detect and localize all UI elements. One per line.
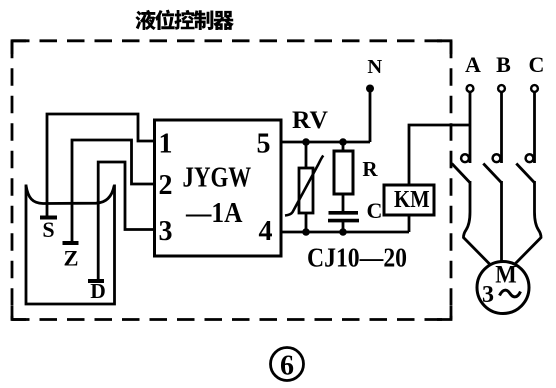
svg-text:2: 2 xyxy=(159,170,173,201)
svg-text:5: 5 xyxy=(257,129,271,160)
wire phase A upper xyxy=(469,92,472,163)
svg-text:4: 4 xyxy=(259,216,273,247)
svg-text:JYGW: JYGW xyxy=(183,162,252,194)
border corner BL xyxy=(12,306,26,320)
wire KM top to phase A xyxy=(409,125,470,185)
tank container xyxy=(26,185,115,305)
wire KM bottom stub xyxy=(408,215,411,232)
terminal B xyxy=(498,85,505,92)
svg-text:N: N xyxy=(367,56,382,78)
svg-text:6: 6 xyxy=(280,351,294,382)
IC U1 JYGW-1A box xyxy=(155,120,282,256)
junction dot C bottom xyxy=(339,228,347,236)
electrode Z tip bar xyxy=(63,241,79,245)
svg-text:M: M xyxy=(495,262,517,289)
terminal C xyxy=(531,85,538,92)
title char 器 xyxy=(213,11,234,30)
svg-text:RV: RV xyxy=(292,105,329,134)
title char 液 xyxy=(135,10,155,30)
capacitor C bottom plate xyxy=(328,219,359,223)
wire RV bottom stub xyxy=(305,213,308,232)
wire pin4 bus xyxy=(281,231,409,234)
svg-text:C: C xyxy=(367,198,383,223)
wire R top stub xyxy=(342,142,345,151)
svg-text:1: 1 xyxy=(159,129,173,160)
electrode S wire xyxy=(47,114,155,216)
svg-text:R: R xyxy=(362,157,378,181)
svg-text:KM: KM xyxy=(394,186,430,213)
svg-text:S: S xyxy=(42,217,54,242)
junction dot RV top xyxy=(302,138,310,146)
svg-text:—1A: —1A xyxy=(185,197,242,229)
junction dot R top xyxy=(339,138,347,146)
contact blade A xyxy=(452,164,470,183)
title char 控 xyxy=(175,10,195,30)
svg-text:A: A xyxy=(465,52,481,77)
svg-text:3: 3 xyxy=(159,216,173,247)
terminal A xyxy=(467,85,474,92)
border corner BR xyxy=(437,306,451,320)
motor M circle xyxy=(477,262,529,314)
svg-text:Z: Z xyxy=(63,245,78,270)
wire C bottom stub xyxy=(342,222,345,232)
contactor coil KM box xyxy=(384,185,434,215)
wire phase A lower xyxy=(464,181,494,268)
contact hook C xyxy=(526,154,534,162)
wire phase B lower xyxy=(500,181,503,264)
svg-text:CJ10—20: CJ10—20 xyxy=(307,243,407,273)
electrode D wire xyxy=(98,162,154,279)
figure number circle 6 xyxy=(271,348,304,381)
wire RV top stub xyxy=(305,142,308,168)
border corner TL xyxy=(12,41,26,54)
varistor RV body xyxy=(299,168,313,213)
svg-text:D: D xyxy=(90,279,106,303)
wire R to C xyxy=(342,194,345,211)
wire phase C upper xyxy=(533,92,536,163)
motor label tilde xyxy=(500,290,521,297)
wire N riser xyxy=(369,89,372,142)
contact blade C xyxy=(516,164,534,183)
tank water line xyxy=(26,186,114,204)
title char 位 xyxy=(155,10,175,30)
contact hook A xyxy=(461,154,469,162)
svg-text:B: B xyxy=(496,52,511,77)
wire pin5 to N riser xyxy=(281,141,370,144)
contact hook B xyxy=(493,154,501,162)
svg-text:C: C xyxy=(529,52,545,77)
wire phase B upper xyxy=(500,92,503,163)
border corner TR xyxy=(437,41,451,54)
junction dot RV bottom xyxy=(302,228,310,236)
electrode Z wire xyxy=(72,140,155,241)
terminal dot N xyxy=(366,85,374,93)
resistor R body xyxy=(334,151,353,194)
varistor RV diagonal arrow xyxy=(285,156,323,216)
wire phase C lower xyxy=(511,181,541,268)
contact blade B xyxy=(483,164,501,183)
title char 制 xyxy=(194,10,214,30)
electrode D tip bar xyxy=(88,279,104,283)
title 液位控制器 xyxy=(135,10,234,30)
capacitor C top plate xyxy=(329,211,359,215)
dashed enclosure border xyxy=(12,41,451,320)
electrode S tip bar xyxy=(40,216,57,220)
svg-text:3: 3 xyxy=(482,282,494,308)
